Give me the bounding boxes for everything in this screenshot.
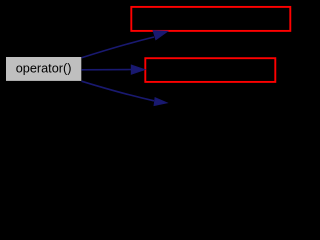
edge E2 operator() -> N3 (wire) [81,69,131,71]
edge E3 operator() -> hidden node (wire) [82,81,155,101]
node N1 operator() (current node, grey) [6,57,81,81]
arrowhead E2 [131,65,145,74]
edge E1 operator() -> N2 (wire) [82,37,154,58]
arrowhead E1 [153,31,168,40]
svg-text:operator(): operator() [16,62,72,76]
node N3 (truncated, red border, middle) [145,58,275,82]
node N2 (truncated, red border, top) [131,7,290,31]
arrowhead E3 [154,98,167,106]
